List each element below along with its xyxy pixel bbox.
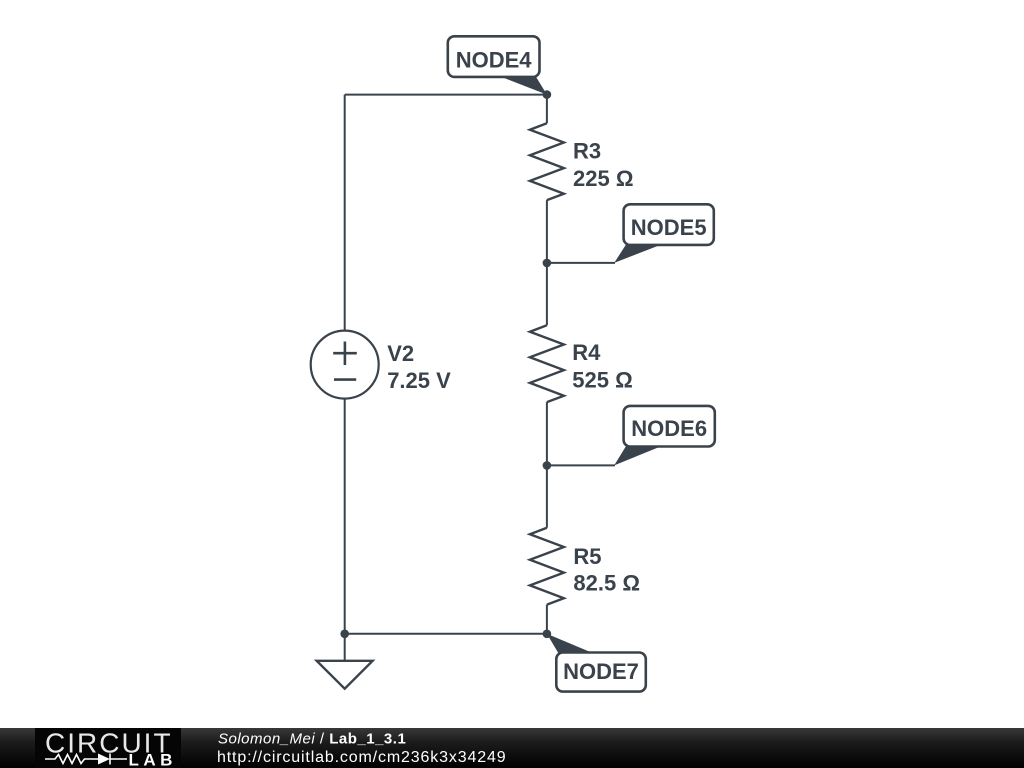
svg-text:V2: V2 bbox=[387, 341, 414, 366]
svg-text:NODE5: NODE5 bbox=[631, 215, 707, 240]
svg-text:NODE7: NODE7 bbox=[563, 659, 639, 684]
svg-text:7.25 V: 7.25 V bbox=[387, 368, 451, 393]
svg-text:82.5 Ω: 82.5 Ω bbox=[573, 571, 640, 596]
svg-text:225 Ω: 225 Ω bbox=[573, 166, 633, 191]
svg-text:LAB: LAB bbox=[129, 751, 177, 768]
svg-text:http://circuitlab.com/cm236k3x: http://circuitlab.com/cm236k3x34249 bbox=[217, 749, 506, 766]
svg-text:Solomon_Mei / Lab_1_3.1: Solomon_Mei / Lab_1_3.1 bbox=[218, 730, 406, 747]
svg-text:R3: R3 bbox=[573, 139, 601, 164]
svg-text:R5: R5 bbox=[573, 544, 601, 569]
svg-text:NODE4: NODE4 bbox=[456, 48, 533, 73]
svg-text:NODE6: NODE6 bbox=[631, 416, 707, 441]
svg-text:R4: R4 bbox=[572, 340, 601, 365]
svg-text:525 Ω: 525 Ω bbox=[572, 368, 632, 393]
